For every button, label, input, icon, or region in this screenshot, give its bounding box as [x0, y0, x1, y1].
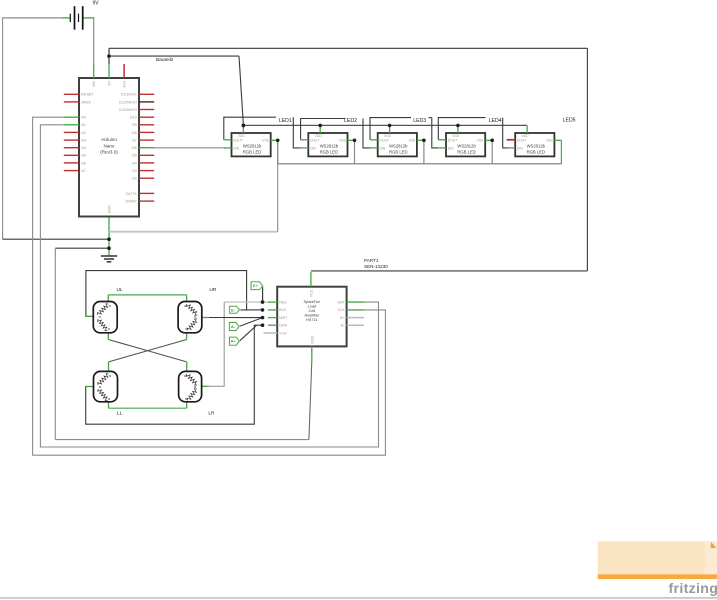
- svg-text:D5: D5: [132, 154, 137, 158]
- svg-text:CLK: CLK: [338, 308, 346, 312]
- svg-text:LED1: LED1: [279, 118, 292, 124]
- svg-text:WS2812b: WS2812b: [320, 144, 339, 149]
- svg-text:fritzing: fritzing: [669, 581, 717, 597]
- svg-text:D1/TX: D1/TX: [126, 192, 137, 196]
- svg-text:DOUT: DOUT: [517, 139, 526, 143]
- svg-text:E-: E-: [231, 307, 236, 312]
- svg-text:DAT: DAT: [338, 300, 346, 304]
- svg-text:A6: A6: [81, 161, 86, 165]
- svg-text:D3: D3: [132, 169, 137, 173]
- svg-text:DOUT: DOUT: [233, 139, 242, 143]
- svg-text:RESET: RESET: [81, 93, 94, 97]
- svg-text:UL: UL: [117, 287, 123, 293]
- svg-text:E+: E+: [253, 283, 259, 288]
- svg-text:A1: A1: [81, 123, 86, 127]
- svg-text:VSS: VSS: [262, 139, 269, 143]
- svg-text:SEN-13230: SEN-13230: [364, 264, 388, 269]
- svg-text:A3: A3: [81, 139, 86, 143]
- svg-text:YLW: YLW: [279, 331, 287, 335]
- svg-text:DOUT: DOUT: [380, 139, 389, 143]
- svg-text:LR: LR: [208, 410, 215, 416]
- svg-text:BLK: BLK: [279, 308, 286, 312]
- svg-text:D7: D7: [132, 139, 137, 143]
- svg-text:RGB LED: RGB LED: [527, 149, 545, 154]
- svg-text:WHT: WHT: [279, 316, 288, 320]
- svg-text:A5: A5: [81, 154, 86, 158]
- svg-text:DOUT: DOUT: [448, 139, 457, 143]
- svg-text:AREF: AREF: [81, 100, 92, 104]
- svg-text:WS2812b: WS2812b: [527, 144, 546, 149]
- svg-text:HX711: HX711: [306, 317, 318, 322]
- svg-text:VSS: VSS: [339, 139, 346, 143]
- svg-text:Arduino: Arduino: [101, 137, 117, 142]
- svg-text:LED4: LED4: [489, 118, 502, 124]
- svg-text:WS2812b: WS2812b: [243, 144, 262, 149]
- svg-text:(Rev3.0): (Rev3.0): [100, 150, 118, 155]
- svg-text:VIN: VIN: [92, 81, 96, 88]
- svg-text:DIN: DIN: [448, 147, 454, 151]
- svg-text:DIN: DIN: [517, 147, 523, 151]
- svg-text:5V: 5V: [108, 81, 112, 86]
- svg-text:GND: GND: [311, 335, 315, 343]
- svg-text:D2: D2: [132, 177, 137, 181]
- svg-text:DIN: DIN: [233, 147, 239, 151]
- svg-text:VDD: VDD: [315, 134, 323, 138]
- svg-text:DIN: DIN: [310, 147, 316, 151]
- svg-text:WS2812b: WS2812b: [457, 144, 476, 149]
- svg-text:Bauteil2: Bauteil2: [156, 57, 174, 63]
- svg-text:VSS: VSS: [546, 139, 553, 143]
- svg-text:D9: D9: [132, 123, 137, 127]
- svg-text:VDD: VDD: [238, 134, 246, 138]
- svg-text:A+: A+: [231, 339, 237, 344]
- svg-text:GND: GND: [108, 205, 112, 214]
- svg-text:VDD: VDD: [384, 134, 392, 138]
- svg-text:VCC: VCC: [310, 289, 314, 297]
- svg-text:A7: A7: [81, 169, 86, 173]
- svg-text:D6: D6: [132, 146, 137, 150]
- svg-text:UR: UR: [209, 287, 216, 293]
- svg-text:GRN: GRN: [279, 324, 287, 328]
- svg-text:LED2: LED2: [344, 118, 357, 124]
- svg-text:D11/MOSI: D11/MOSI: [119, 108, 136, 112]
- svg-text:PART1: PART1: [364, 258, 379, 263]
- svg-text:A0: A0: [81, 116, 86, 120]
- svg-text:LED3: LED3: [413, 118, 426, 124]
- svg-text:A4: A4: [81, 146, 86, 150]
- svg-text:D10: D10: [130, 116, 137, 120]
- svg-text:A2: A2: [81, 131, 86, 135]
- svg-text:VDD: VDD: [452, 134, 460, 138]
- svg-text:B+: B+: [340, 316, 345, 320]
- svg-text:RGB LED: RGB LED: [243, 149, 261, 154]
- svg-text:VSS: VSS: [477, 139, 484, 143]
- svg-text:3V3: 3V3: [123, 81, 127, 88]
- svg-text:Nano: Nano: [104, 143, 115, 148]
- svg-text:LL: LL: [117, 410, 123, 416]
- svg-text:VSS: VSS: [408, 139, 415, 143]
- svg-text:D12/MISO: D12/MISO: [119, 100, 137, 104]
- svg-text:D13/SCK: D13/SCK: [121, 93, 137, 97]
- svg-text:RGB LED: RGB LED: [389, 149, 407, 154]
- svg-text:VDD: VDD: [522, 134, 530, 138]
- svg-text:LED5: LED5: [563, 117, 576, 123]
- svg-text:D0/RX: D0/RX: [126, 200, 138, 204]
- svg-text:RGB LED: RGB LED: [320, 149, 338, 154]
- svg-text:D8: D8: [132, 131, 137, 135]
- svg-text:RED: RED: [279, 300, 287, 304]
- svg-text:WS2812b: WS2812b: [389, 144, 408, 149]
- svg-text:9V: 9V: [92, 1, 99, 7]
- svg-text:DOUT: DOUT: [310, 139, 319, 143]
- svg-text:A-: A-: [231, 324, 236, 329]
- svg-text:D4: D4: [132, 161, 137, 165]
- svg-text:DIN: DIN: [380, 147, 386, 151]
- svg-text:RGB LED: RGB LED: [457, 149, 475, 154]
